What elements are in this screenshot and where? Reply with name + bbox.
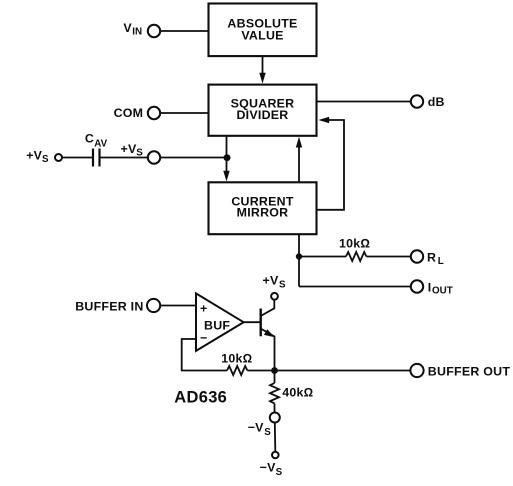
wire feedback current mirror to squarer (right loop with left arrow) [317, 117, 345, 210]
node junction RL [296, 253, 302, 259]
wire COM to squarer [160, 112, 208, 114]
wire resistor to -VS terminal [274, 403, 276, 411]
terminal -VS [248, 413, 280, 439]
node junction +VS / squarer-mirror [224, 154, 231, 161]
terminal BUFFER IN [75, 299, 160, 313]
terminal -VS supply [260, 452, 283, 478]
svg-text:L: L [438, 256, 444, 267]
svg-text:+V: +V [121, 142, 137, 156]
svg-text:−V: −V [260, 460, 276, 474]
svg-text:10kΩ: 10kΩ [339, 237, 370, 251]
terminal +VS [121, 142, 161, 164]
block SQUARER DIVIDER [209, 85, 317, 136]
svg-text:S: S [42, 154, 49, 165]
svg-text:MIRROR: MIRROR [237, 205, 289, 219]
wire squarer to current mirror (arrow down) [223, 136, 229, 182]
wire op-amp output to transistor base [244, 321, 260, 323]
wire VIN to absolute value [160, 30, 208, 32]
svg-text:BUFFER OUT: BUFFER OUT [428, 365, 511, 379]
wire current mirror to squarer (arrow up) [296, 137, 302, 182]
svg-text:+V: +V [26, 149, 42, 163]
svg-text:VALUE: VALUE [241, 29, 283, 43]
wire capacitor to +VS terminal [101, 157, 148, 159]
svg-text:DIVIDER: DIVIDER [236, 108, 288, 122]
svg-text:S: S [136, 148, 143, 159]
terminal +VS transistor [263, 273, 287, 299]
wire -VS terminal to -VS supply [274, 423, 277, 451]
wire +VS to capacitor [62, 157, 92, 159]
wire squarer to dB [317, 101, 412, 103]
terminal BUFFER OUT [410, 364, 510, 379]
svg-text:V: V [123, 21, 132, 35]
resistor 10k (feedback) [221, 351, 252, 375]
svg-text:C: C [85, 132, 94, 146]
wire op-amp minus feedback down [182, 339, 227, 371]
terminal COM [114, 106, 161, 120]
svg-text:I: I [428, 280, 432, 294]
wire emitter junction down [274, 371, 276, 384]
block CURRENT MIRROR [209, 182, 317, 234]
svg-text:BUFFER IN: BUFFER IN [75, 299, 143, 313]
terminal +VS far left [26, 149, 62, 165]
svg-text:COM: COM [114, 106, 144, 120]
transistor Q1 [261, 300, 275, 370]
svg-text:S: S [264, 427, 271, 438]
wire junction to resistor [299, 256, 346, 258]
wire absolute value to squarer (arrow down) [259, 56, 265, 84]
wire current mirror bottom down [298, 234, 300, 287]
svg-text:+V: +V [263, 273, 279, 287]
block ABSOLUTE VALUE [209, 4, 317, 57]
terminal VIN [123, 21, 160, 38]
svg-text:S: S [279, 280, 286, 291]
svg-text:R: R [427, 250, 436, 264]
svg-text:40kΩ: 40kΩ [282, 386, 313, 400]
capacitor CAV [85, 132, 108, 167]
wire to BUFFER OUT [275, 370, 411, 372]
svg-text:AD636: AD636 [174, 388, 227, 406]
svg-text:S: S [276, 467, 283, 478]
wire +VS terminal to junction [160, 157, 226, 159]
svg-text:10kΩ: 10kΩ [221, 351, 252, 365]
svg-text:dB: dB [428, 95, 445, 109]
resistor 10k (RL line) [339, 237, 370, 261]
resistor 40k [270, 383, 313, 403]
wire BUFFER IN to op-amp [160, 305, 196, 307]
svg-text:AV: AV [94, 138, 107, 149]
svg-text:−: − [200, 331, 208, 345]
wire resistor to RL [366, 256, 411, 258]
svg-text:+: + [200, 302, 208, 316]
terminal RL [411, 250, 444, 267]
svg-text:IN: IN [132, 27, 142, 38]
wire resistor to emitter junction [247, 370, 274, 372]
svg-text:BUF: BUF [204, 319, 230, 333]
op-amp U1 BUF [196, 293, 244, 350]
terminal IOUT [411, 280, 453, 296]
wire IOUT [299, 286, 411, 288]
node junction emitter / feedback / buffer out [271, 367, 278, 374]
svg-text:−V: −V [248, 421, 264, 435]
terminal dB [411, 95, 445, 109]
svg-text:OUT: OUT [432, 286, 453, 297]
